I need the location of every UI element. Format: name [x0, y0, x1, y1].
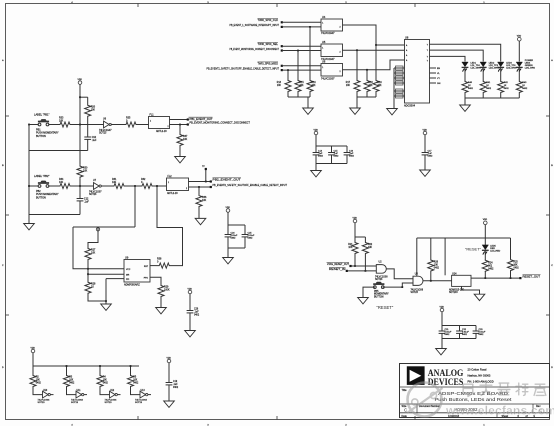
wire LED to R24 [484, 250, 486, 260]
svg-text:0402: 0402 [468, 88, 474, 90]
resistor R3 10K [64, 374, 70, 388]
wire LED anodes to resistors [464, 68, 466, 80]
wire PB2 to R34 [48, 185, 57, 187]
wire row2 bottom rail [29, 214, 80, 216]
wire net1 to gate U2 [352, 265, 377, 267]
pin squares pair1 [281, 21, 283, 23]
watermark elecfans stamp and text [407, 383, 443, 417]
gate U7A buffer row2 [94, 183, 100, 190]
wire pack B bottom rail [356, 93, 358, 97]
wire R32 to filter FL2 [154, 185, 167, 187]
svg-text:74LVC1G04: 74LVC1G04 [71, 399, 84, 401]
svg-text:LD4_RED: LD4_RED [490, 250, 500, 252]
svg-text:U5: U5 [322, 40, 326, 44]
wire pair2 to buffer U5 [282, 45, 321, 47]
svg-text:BUTTON: BUTTON [36, 135, 46, 138]
filter block row2 [167, 178, 189, 191]
power VDD reset led [484, 221, 488, 225]
svg-text:10K: 10K [369, 85, 374, 87]
svg-text:R42: R42 [504, 82, 509, 84]
svg-text:Date: Date [402, 415, 408, 418]
svg-text:74LVC2G07: 74LVC2G07 [321, 32, 335, 35]
wire U6A out to R35 [111, 124, 124, 126]
wire rail to R3 [66, 366, 68, 374]
wire supervisor top rail [73, 226, 135, 228]
svg-text:C: C [551, 265, 553, 267]
wire R4 to gate U12 [100, 388, 110, 395]
resistor R31 10K [110, 183, 128, 188]
wire U8 to LED2 [430, 50, 484, 61]
svg-text:VDD: VDD [188, 288, 193, 290]
Analog Devices logo [407, 366, 425, 385]
svg-text:R43: R43 [522, 82, 527, 84]
resistor R20 10K pullup row1 [85, 104, 91, 117]
svg-text:SOT23: SOT23 [89, 194, 97, 196]
open-drain buffer U13 [140, 391, 146, 398]
svg-text:U11: U11 [77, 390, 82, 392]
open-drain buffer U10 [43, 391, 49, 398]
wire R20 to C10 [87, 118, 89, 138]
svg-text:Y: Y [427, 44, 429, 46]
wire R21 to net1 [354, 255, 356, 267]
svg-text:ADM708SARZ: ADM708SARZ [124, 284, 140, 287]
svg-text:0402: 0402 [103, 383, 109, 385]
ground left rail [28, 215, 30, 224]
svg-text:R16: R16 [312, 82, 317, 84]
svg-text:R4: R4 [103, 377, 107, 379]
power VDD row1 pullup [78, 81, 82, 85]
svg-text:TP: TP [202, 166, 205, 168]
ground reset button [358, 298, 369, 304]
svg-text:SOT23: SOT23 [135, 402, 143, 404]
svg-text:RST: RST [144, 266, 149, 268]
resistor R18 10K [364, 79, 370, 93]
svg-text:PFI: PFI [126, 279, 130, 281]
svg-text:R3: R3 [69, 377, 73, 379]
svg-text:10K: 10K [83, 170, 88, 173]
svg-text:VDD: VDD [167, 357, 172, 359]
svg-text:LABEL “PB2”: LABEL “PB2” [34, 174, 49, 178]
wire U4 output to level shifter [343, 25, 405, 45]
ground mid cap group [311, 171, 322, 177]
wire R35 to filter J1 [138, 124, 149, 126]
capacitor C26 .1uF [187, 310, 194, 312]
svg-text:SOT23: SOT23 [105, 402, 113, 404]
wire PB5 left to ground [363, 287, 375, 297]
svg-text:0402: 0402 [462, 334, 468, 336]
svg-text:PB_EVENT_1_SOFTWARE_INTERRUPT_: PB_EVENT_1_SOFTWARE_INTERRUPT_INPUT [230, 23, 280, 27]
wire R2 to gate U10 [33, 388, 43, 395]
wire pack B verticals [356, 50, 358, 79]
wire U14 output net [471, 277, 520, 279]
svg-text:0402: 0402 [522, 88, 528, 90]
svg-text:R2: R2 [36, 377, 40, 379]
svg-text:R40: R40 [468, 82, 473, 84]
wire net2 to gate U2 [348, 270, 377, 272]
svg-text:.1uF: .1uF [92, 139, 97, 142]
svg-text:10K: 10K [434, 265, 439, 267]
svg-text:10K: 10K [183, 138, 188, 141]
wire R28 to ground [88, 295, 106, 302]
svg-text:LD1_GRN: LD1_GRN [471, 68, 482, 70]
ground supervisor right [156, 308, 167, 314]
svg-text:SOT23: SOT23 [38, 402, 46, 404]
svg-text:VDD: VDD [78, 79, 83, 81]
U8 right lower pin stubs [430, 67, 437, 69]
U8 left grounded pin stubs [394, 67, 405, 69]
wire PB5 right to U3 [383, 283, 413, 287]
capacitor C22 0.01uF [456, 330, 463, 332]
svg-text:1K: 1K [504, 85, 507, 87]
svg-text:0402: 0402 [504, 88, 510, 90]
wire left rail to PB1 [29, 124, 39, 126]
wire row1 lower rail [29, 150, 88, 152]
wire row2 load resistor [198, 187, 200, 195]
svg-text:U10: U10 [43, 390, 48, 392]
wire U2 out to U3 input [386, 269, 413, 279]
svg-text:B: B [2, 165, 4, 167]
svg-text:0402: 0402 [334, 156, 340, 158]
svg-text:0402: 0402 [133, 383, 139, 385]
svg-text:VDD: VDD [423, 129, 428, 131]
svg-text:EN: EN [437, 68, 440, 70]
wire row2 node down to supervisor rail [134, 186, 136, 227]
svg-text:74LVC1G08: 74LVC1G08 [411, 289, 424, 291]
power VDD reset caps [440, 308, 444, 312]
svg-text:0402: 0402 [488, 269, 494, 271]
resistor R29 100K [158, 284, 164, 298]
power VDD bottom-left rail [31, 349, 35, 353]
svg-text:0402: 0402 [69, 383, 75, 385]
wire node down to R27 [88, 231, 98, 247]
svg-text:SOT23: SOT23 [71, 402, 79, 404]
svg-text:10K: 10K [202, 199, 207, 202]
wire reset pullup rail [355, 236, 365, 238]
svg-text:0402: 0402 [428, 156, 434, 158]
wire single cap to ground [424, 155, 426, 170]
svg-text:ADG3304: ADG3304 [404, 105, 416, 108]
svg-text:VDD: VDD [226, 207, 231, 209]
resistor R32 0 ohm [140, 183, 154, 188]
svg-text:Document Number: Document Number [419, 405, 440, 408]
svg-text:R15: R15 [300, 82, 305, 84]
resistor R19 10K [373, 79, 379, 93]
level shifter U8 ADG3304 [405, 40, 430, 104]
svg-text:1: 1 [322, 23, 323, 25]
svg-text:www.elecfans.com: www.elecfans.com [445, 404, 554, 418]
svg-text:U8: U8 [405, 36, 409, 40]
svg-text:10K: 10K [91, 252, 96, 255]
wire R5 to gate U13 [131, 388, 141, 395]
wire R29 to ground [160, 298, 162, 308]
svg-text:SOT23: SOT23 [411, 292, 419, 294]
AND gate U3 74LVC1G08 [413, 276, 423, 285]
svg-text:PB_EVENT_MONITORING_CONNECT_DI: PB_EVENT_MONITORING_CONNECT_DISCONNECT [230, 47, 280, 51]
svg-text:U12: U12 [110, 390, 115, 392]
wire row2 outputs to pins [189, 181, 211, 183]
svg-text:RESET_IN: RESET_IN [329, 267, 346, 271]
resistor R38 0 ohm [156, 263, 174, 268]
svg-text:1K: 1K [468, 85, 471, 87]
resistor R15 10K [295, 79, 301, 93]
ground single cap [420, 170, 431, 176]
wire rail to U14 vcc [444, 238, 446, 275]
resistor R25 10K [508, 259, 514, 271]
resistor R21 10K [352, 242, 358, 255]
svg-text:TWI0_SPI0_SEL: TWI0_SPI0_SEL [258, 42, 279, 46]
svg-text:B: B [551, 165, 553, 167]
svg-text:20 Cotton Road: 20 Cotton Road [468, 368, 487, 372]
LED LED4 power green [516, 62, 522, 67]
svg-text:10K: 10K [59, 119, 64, 122]
svg-text:U7: U7 [93, 179, 97, 182]
svg-text:VDD: VDD [483, 219, 488, 221]
node junction circle supervisor [96, 228, 99, 231]
resistor R4 10K [97, 374, 103, 388]
wire R22 to net2 [364, 255, 366, 271]
svg-text:R19: R19 [378, 82, 383, 84]
svg-text:FL2: FL2 [168, 175, 173, 178]
capacitor C10 .1uF row1 [84, 136, 91, 138]
wire PB1 to R33 [48, 124, 57, 126]
svg-text:74LVC1G07: 74LVC1G07 [89, 191, 102, 193]
svg-text:“RESET”: “RESET” [465, 247, 482, 252]
svg-text:74LVC1G08: 74LVC1G08 [375, 276, 388, 278]
svg-text:0402: 0402 [318, 156, 324, 158]
ground reset caps [436, 349, 447, 355]
capacitor C15 .1uF [328, 152, 335, 154]
svg-text:U14: U14 [452, 273, 457, 276]
wire bottom-left rail [33, 365, 139, 367]
svg-text:74LVC2G07: 74LVC2G07 [321, 77, 335, 80]
LED LED2 green [480, 62, 486, 67]
resistor R17 10K [354, 79, 360, 93]
wire U14 gnd [462, 286, 480, 294]
power VDD reset pullups [353, 219, 357, 223]
ground U8 enable pins [387, 109, 398, 115]
AND gate U2 74LVC1G08 [376, 265, 386, 274]
wire mid cap top rail [316, 145, 347, 147]
svg-text:2: 2 [340, 27, 341, 29]
wire C12 to bottom rail [79, 201, 81, 215]
wire row1 load resistor [179, 125, 181, 134]
svg-text:2: 2 [340, 71, 341, 73]
power VDD for power LED [518, 37, 522, 41]
svg-text:U2: U2 [379, 261, 383, 264]
resistor R2 10K [30, 374, 36, 388]
pin square reset out [519, 277, 521, 279]
svg-text:VDD: VDD [31, 347, 36, 349]
resistor R41 1K [480, 80, 486, 94]
push button PB5 reset [373, 286, 376, 289]
resistor R26 10K [428, 259, 434, 272]
pin squares pair2 [281, 45, 283, 47]
svg-text:.1uF: .1uF [194, 312, 199, 314]
wire R31 to R32 [128, 185, 140, 187]
LED D1 reset red [482, 245, 488, 250]
wire rail to U3 vcc [416, 238, 418, 276]
wire PFI pin grounded [106, 278, 124, 280]
reset IC U14 [452, 275, 471, 286]
power VDD single cap [423, 131, 427, 135]
svg-text:Title: Title [402, 388, 407, 392]
ground supervisor cap [185, 331, 196, 337]
svg-text:TWI0_SPI0_MISO: TWI0_SPI0_MISO [258, 62, 279, 66]
wire reset caps bottom rail [441, 333, 443, 338]
resistor R36 10K row2 load [196, 195, 202, 207]
wire pair3 to buffer U6 [282, 65, 321, 67]
svg-text:C: C [2, 265, 4, 267]
svg-text:PFO: PFO [144, 278, 149, 280]
power VDD bottom cap [167, 359, 171, 363]
resistor R30 10K pullup row2 [79, 125, 81, 165]
ground pack B [350, 108, 361, 114]
wire C19 to ground [168, 385, 170, 401]
svg-text:10K: 10K [312, 85, 317, 87]
svg-text:SOT23: SOT23 [99, 133, 107, 135]
ground row2 load [195, 218, 206, 224]
capacitor C25 0.01uF [242, 234, 249, 236]
supervisor U9 ADM708 [124, 260, 150, 283]
svg-text:R24: R24 [488, 263, 493, 265]
svg-text:.1uF: .1uF [84, 201, 89, 204]
svg-text:.1uF: .1uF [173, 384, 178, 386]
svg-text:74LVC1G04: 74LVC1G04 [105, 399, 118, 401]
svg-text:“RESET”: “RESET” [377, 305, 394, 310]
wire row1 outputs to pins [170, 119, 188, 121]
svg-text:1: 1 [322, 48, 323, 50]
svg-text:PH: 1-800-ANALOGD: PH: 1-800-ANALOGD [468, 380, 494, 384]
wire U8 to LED3 [430, 44, 501, 61]
title block divider lines [400, 386, 550, 388]
ground supervisor left [101, 304, 112, 310]
gate U6A buffer row1 [104, 121, 110, 128]
svg-text:A: A [2, 59, 4, 62]
svg-text:0: 0 [126, 119, 128, 122]
wire R25 to output net [510, 271, 512, 278]
wire R33 to gate U6A [73, 124, 104, 126]
pin squares pair3 [281, 65, 283, 67]
svg-text:1K: 1K [91, 286, 94, 289]
wire rail to R25 [510, 238, 512, 259]
svg-text:10K: 10K [103, 380, 108, 382]
wire R26 to net [430, 272, 432, 281]
svg-text:C: C [404, 408, 407, 413]
svg-text:10K: 10K [91, 109, 96, 112]
wire PFO to R29 [150, 277, 161, 284]
svg-text:0402: 0402 [231, 238, 237, 240]
svg-text:VDD: VDD [440, 306, 445, 308]
svg-text:RESET_OUT: RESET_OUT [523, 274, 541, 278]
svg-text:R22: R22 [368, 244, 373, 246]
pin stub row2 up [205, 170, 207, 182]
svg-text:PB_EVENT2_SAFETY_SHUTOFF_ENABL: PB_EVENT2_SAFETY_SHUTOFF_ENABLE_CABLE_DE… [213, 183, 288, 187]
wire R3 to gate U11 [67, 388, 77, 395]
svg-text:VCC: VCC [126, 269, 131, 271]
svg-text:C26: C26 [194, 309, 199, 311]
filter block row1 [149, 117, 170, 129]
svg-text:TWI0_SPI0_CLK: TWI0_SPI0_CLK [258, 18, 279, 22]
svg-text:2: 2 [186, 188, 187, 190]
svg-text:LD5_GRN: LD5_GRN [525, 68, 536, 70]
capacitor C21 0.01uF [439, 330, 446, 332]
svg-text:R25: R25 [514, 262, 519, 264]
svg-text:10K: 10K [514, 265, 519, 267]
svg-text:D: D [2, 367, 4, 369]
svg-text:A: A [406, 54, 408, 57]
svg-text:2: 2 [168, 126, 169, 128]
svg-text:R41: R41 [486, 82, 491, 84]
ground reset IC [474, 294, 485, 300]
svg-text:PB5: PB5 [374, 291, 379, 293]
wire left rail vertical [28, 125, 30, 215]
open-drain buffer U11 [76, 391, 82, 398]
ground cap pair [223, 258, 234, 264]
power VDD supervisor cap [188, 290, 192, 294]
wire rail to R5 [130, 366, 132, 374]
wire R24 to output net [484, 271, 486, 278]
resistor R37 10K row1 load [177, 133, 183, 147]
svg-text:FL1: FL1 [150, 114, 155, 117]
resistor R33 10K [57, 122, 73, 127]
svg-text:A: A [551, 59, 553, 62]
wire pack A verticals [309, 27, 311, 79]
svg-text:0402: 0402 [194, 315, 200, 317]
svg-text:R21: R21 [348, 244, 353, 246]
svg-text:100K: 100K [164, 289, 170, 292]
svg-text:C19: C19 [173, 381, 178, 383]
resistor R34 10K [57, 183, 73, 188]
svg-text:ADTL2-18: ADTL2-18 [167, 192, 178, 195]
resistor R28 1K [85, 281, 91, 295]
svg-text:1: 1 [322, 67, 323, 69]
wire U6 output to level shifter [343, 60, 405, 70]
svg-text:0402: 0402 [479, 334, 485, 336]
wire left rail to PB2 [29, 185, 39, 187]
open-drain buffer U12 [110, 391, 116, 398]
svg-text:R14: R14 [277, 82, 282, 84]
svg-text:LD3_GRN: LD3_GRN [506, 68, 517, 70]
svg-text:74LVC1G04: 74LVC1G04 [135, 399, 148, 401]
wire mid cap bottom rail [315, 155, 317, 164]
wire reset top rail [417, 237, 511, 239]
wire U5 output to level shifter [343, 49, 405, 51]
svg-text:1: 1 [150, 121, 151, 123]
pin squares row1 outputs [187, 118, 189, 120]
wire reset caps top rail [442, 325, 476, 327]
svg-text:LABEL “PB1”: LABEL “PB1” [34, 113, 49, 117]
svg-text:A: A [406, 49, 408, 52]
capacitor C17 .1uF [422, 152, 429, 154]
svg-text:0402: 0402 [349, 156, 355, 158]
wire R36 to ground [198, 207, 200, 218]
svg-text:R17: R17 [346, 82, 351, 84]
capacitor C12 .1uF row2 [79, 186, 81, 199]
resistor R40 1K [462, 80, 468, 94]
svg-text:0402: 0402 [486, 88, 492, 90]
svg-text:0402: 0402 [36, 383, 42, 385]
resistor R43 1K [516, 80, 522, 94]
svg-text:A: A [406, 44, 408, 47]
pin squares row2 outputs [210, 180, 212, 182]
svg-text:10K: 10K [368, 247, 373, 249]
svg-text:VY: VY [437, 78, 440, 80]
power VDD cap pair [226, 209, 230, 213]
svg-text:10K: 10K [348, 247, 353, 249]
svg-text:PB_EVENT_MONITORING_CONNECT_DI: PB_EVENT_MONITORING_CONNECT_DISCONNECT [190, 121, 251, 125]
svg-text:U13: U13 [141, 390, 146, 392]
svg-text:0402: 0402 [514, 268, 520, 270]
